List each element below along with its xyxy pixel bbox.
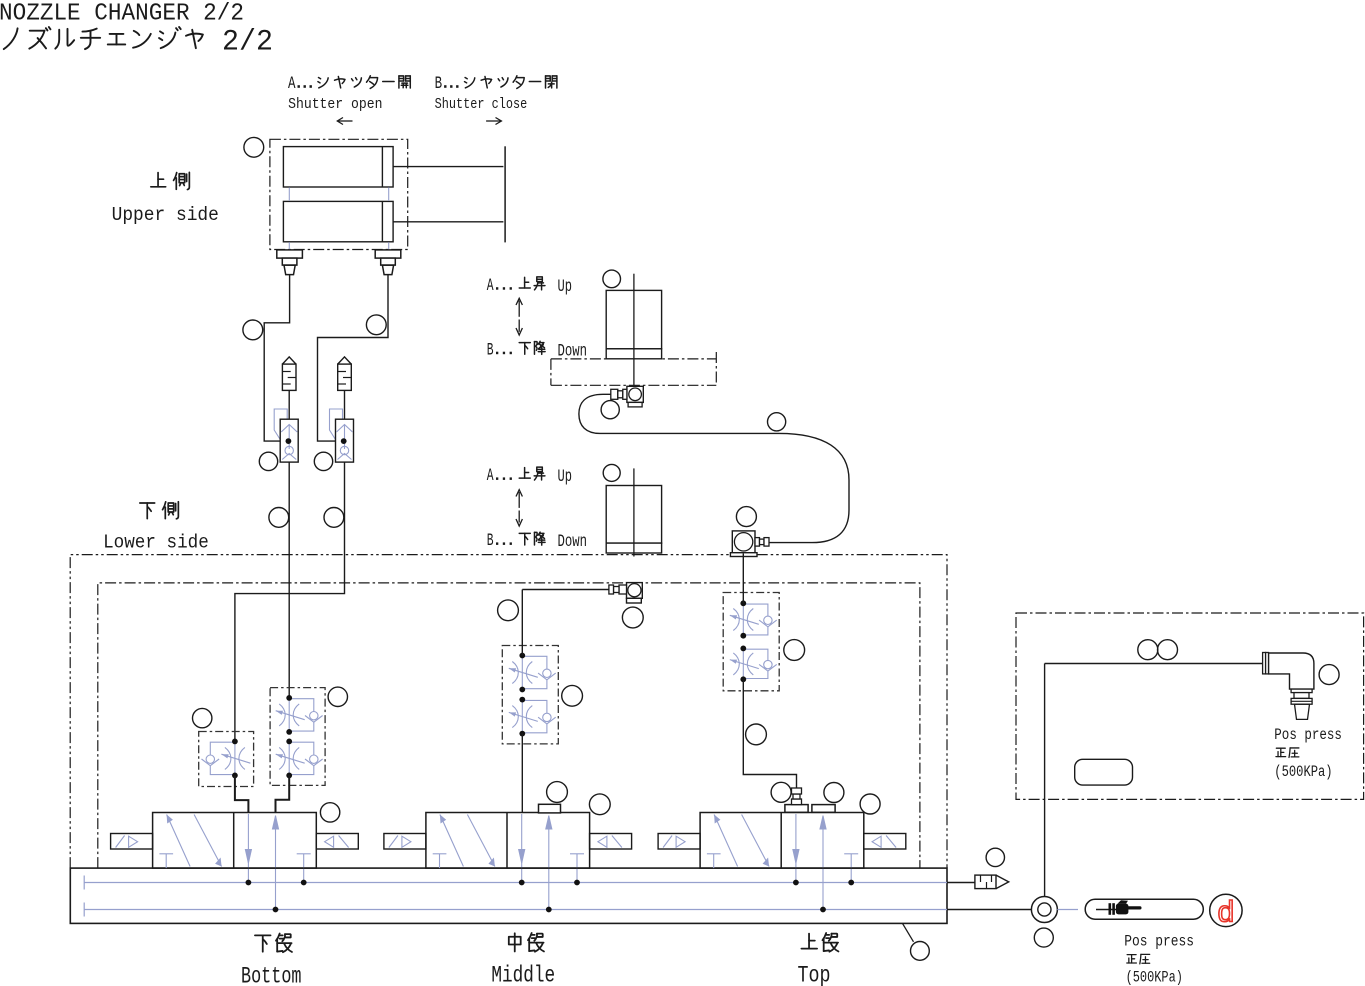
svg-text:Top: Top — [798, 962, 831, 986]
svg-text:2/2: 2/2 — [222, 26, 273, 60]
svg-text:B: B — [487, 531, 494, 551]
svg-text:Shutter close: Shutter close — [435, 97, 528, 113]
svg-text:A: A — [487, 276, 494, 296]
svg-text:Down: Down — [558, 341, 588, 361]
svg-text:A: A — [487, 466, 494, 486]
svg-text:Bottom: Bottom — [241, 964, 302, 986]
svg-text:Shutter open: Shutter open — [288, 97, 382, 113]
svg-text:B: B — [487, 340, 494, 360]
svg-text:Lower side: Lower side — [103, 532, 209, 554]
svg-text:A: A — [288, 74, 296, 94]
svg-text:Pos press: Pos press — [1124, 932, 1194, 950]
svg-text:Up: Up — [558, 277, 573, 297]
svg-text:NOZZLE CHANGER 2/2: NOZZLE CHANGER 2/2 — [0, 1, 244, 28]
svg-text:Down: Down — [558, 532, 588, 552]
svg-text:Pos press: Pos press — [1274, 726, 1342, 744]
svg-text:Up: Up — [558, 467, 573, 487]
svg-text:Middle: Middle — [491, 962, 555, 986]
svg-text:Upper side: Upper side — [112, 204, 219, 226]
svg-text:(500KPa): (500KPa) — [1126, 968, 1183, 986]
svg-text:d: d — [1217, 898, 1235, 932]
svg-text:B: B — [435, 74, 443, 94]
svg-text:(500KPa): (500KPa) — [1274, 763, 1332, 781]
